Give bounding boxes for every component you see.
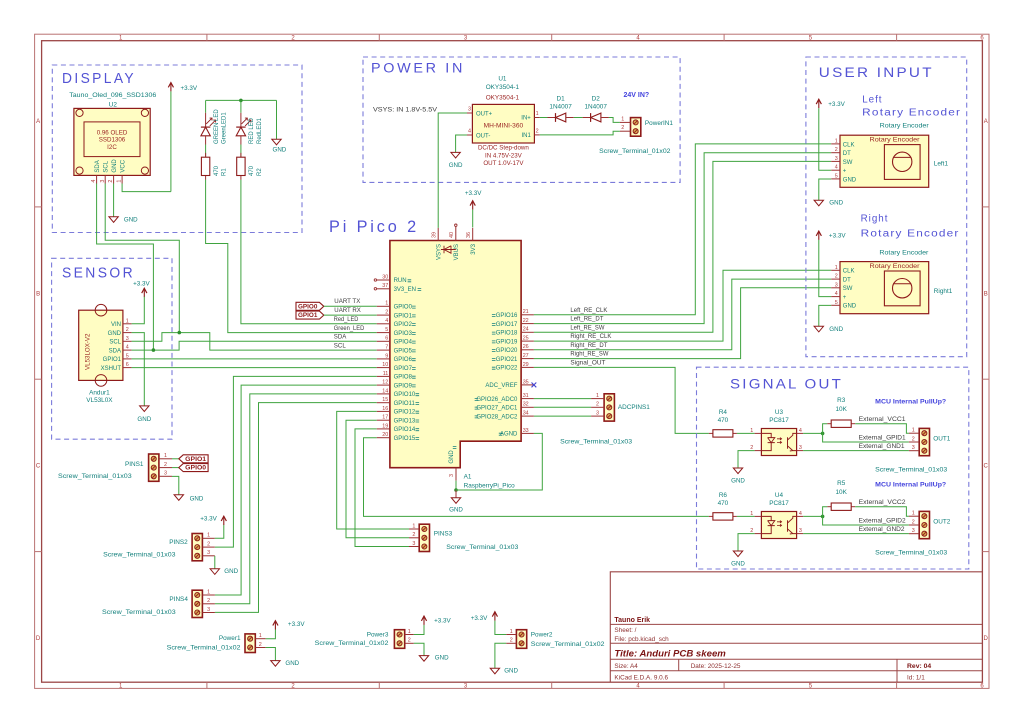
pin 4 SDA U2 xyxy=(96,175,98,183)
svg-text:SCL: SCL xyxy=(103,160,109,172)
svg-text:33: 33 xyxy=(523,428,529,434)
wire sensor GPIO1 to GPIO6 xyxy=(132,358,377,360)
wire to opto xyxy=(737,515,755,517)
ground left encoder xyxy=(814,200,823,206)
svg-text:Screw_Terminal_01x02: Screw_Terminal_01x02 xyxy=(315,640,389,647)
svg-text:GPIO9: GPIO9 xyxy=(394,383,413,389)
pin 6 GPIO4 xyxy=(377,340,390,342)
LED RedLED1 xyxy=(240,113,242,127)
svg-text:3: 3 xyxy=(412,541,415,547)
title block xyxy=(610,572,982,682)
svg-text:2: 2 xyxy=(835,274,838,280)
pin 2 GPIO1 xyxy=(377,314,390,316)
svg-text:34: 34 xyxy=(523,411,529,417)
svg-text:R1: R1 xyxy=(222,168,228,176)
svg-text:1: 1 xyxy=(408,629,411,635)
svg-text:File: pcb.kicad_sch: File: pcb.kicad_sch xyxy=(614,636,669,643)
wire GPIO11 to PINS4 xyxy=(215,403,377,613)
pin 3 SW xyxy=(831,287,840,289)
svg-text:3: 3 xyxy=(207,607,210,613)
pin 1 VCC U2 xyxy=(121,175,123,183)
svg-text:Right_RE_DT: Right_RE_DT xyxy=(570,343,607,349)
pin 10 GPIO7 xyxy=(377,367,390,369)
frame row ticks xyxy=(35,206,42,208)
wire XSHUT to GPIO7 xyxy=(132,367,377,369)
svg-text:Rotary Encoder: Rotary Encoder xyxy=(862,108,961,119)
svg-text:GPIO6: GPIO6 xyxy=(394,357,413,363)
svg-text:GPIO5: GPIO5 xyxy=(394,348,413,354)
wire GPIO13 to PINS3 xyxy=(346,420,409,538)
+3.3V power Power2 xyxy=(492,612,497,617)
wire PINS2 to +3.3V xyxy=(215,525,224,538)
wire External_GND xyxy=(803,450,909,452)
svg-text:+: + xyxy=(843,169,847,175)
wire Power2 +3.3V xyxy=(495,621,506,635)
svg-text:3V3: 3V3 xyxy=(471,243,477,254)
wire Power1 +3.3V xyxy=(266,630,276,639)
pin 1 GPIO0 xyxy=(377,305,390,307)
no-connect ADC_VREF xyxy=(532,383,537,388)
junction SDA xyxy=(152,348,156,352)
svg-text:MCU Internal PullUp?: MCU Internal PullUp? xyxy=(875,482,946,489)
svg-text:External_GPID1: External_GPID1 xyxy=(859,435,907,441)
svg-text:1: 1 xyxy=(412,523,415,529)
screw terminal PowerIN1 xyxy=(631,118,641,137)
svg-text:+3.3V: +3.3V xyxy=(200,516,217,523)
svg-text:PowerIN1: PowerIN1 xyxy=(645,120,674,127)
wire PINS1 gnd xyxy=(172,476,179,494)
svg-text:+3.3V: +3.3V xyxy=(434,617,451,624)
ground Power3 xyxy=(419,656,428,662)
svg-text:USER INPUT: USER INPUT xyxy=(819,65,934,80)
wire sensor GND xyxy=(132,333,145,406)
svg-text:IN+: IN+ xyxy=(521,116,531,122)
svg-text:+3.3V: +3.3V xyxy=(828,101,845,108)
pin 16 GPIO12 xyxy=(377,410,390,412)
svg-text:OUT1: OUT1 xyxy=(933,435,950,442)
svg-text:PC817: PC817 xyxy=(769,417,789,424)
svg-text:GND: GND xyxy=(137,416,151,423)
svg-text:10K: 10K xyxy=(836,489,848,496)
svg-text:3: 3 xyxy=(468,107,471,113)
svg-text:Right_RE_SW: Right_RE_SW xyxy=(570,352,608,358)
svg-text:1: 1 xyxy=(510,629,513,635)
svg-text:40: 40 xyxy=(449,232,455,238)
pin 1 VIN Andur1 xyxy=(123,323,132,325)
DISPLAY section box xyxy=(52,65,302,233)
svg-text:Tauno_Oled_096_SSD1306: Tauno_Oled_096_SSD1306 xyxy=(69,92,156,99)
svg-text:Screw_Terminal_01x02: Screw_Terminal_01x02 xyxy=(167,644,241,651)
svg-text:Power1: Power1 xyxy=(219,635,241,642)
svg-text:OUT-: OUT- xyxy=(476,133,490,139)
pin 5 GND xyxy=(831,178,840,180)
svg-text:U3: U3 xyxy=(775,409,784,416)
svg-text:Screw_Terminal_01x03: Screw_Terminal_01x03 xyxy=(102,609,176,616)
svg-text:GPIO1: GPIO1 xyxy=(103,357,122,363)
svg-text:Screw_Terminal_01x03: Screw_Terminal_01x03 xyxy=(446,544,519,551)
wire External_GND xyxy=(803,533,909,535)
svg-text:MH-MINI-360: MH-MINI-360 xyxy=(484,123,524,130)
svg-text:GPIO2: GPIO2 xyxy=(394,322,413,328)
svg-text:GPIO26_ADC0: GPIO26_ADC0 xyxy=(476,397,518,403)
wire GND pin xyxy=(113,184,115,217)
DC/DC converter U1 xyxy=(472,104,534,143)
svg-text:16: 16 xyxy=(382,406,388,412)
svg-text:27: 27 xyxy=(523,353,529,359)
svg-text:1: 1 xyxy=(912,428,915,434)
wire VSYS net xyxy=(438,113,467,228)
svg-text:Green_LED: Green_LED xyxy=(334,326,365,332)
svg-text:4: 4 xyxy=(126,345,129,351)
wire GPIO9 to PINS4 xyxy=(215,385,377,595)
pin 32 GPIO27_ADC1 xyxy=(521,406,534,408)
svg-text:GND: GND xyxy=(449,506,463,513)
svg-text:2: 2 xyxy=(108,180,114,183)
pin 39 VSYS xyxy=(437,228,439,241)
svg-text:+3.3V: +3.3V xyxy=(465,190,482,197)
+3.3V power left encoder xyxy=(816,99,821,104)
svg-text:1N4007: 1N4007 xyxy=(549,103,572,110)
junction pullup xyxy=(821,515,825,519)
frame column ticks xyxy=(206,34,208,41)
pin 3 SCL Andur1 xyxy=(123,340,132,342)
wire Left_RE_DT xyxy=(534,153,831,324)
svg-text:2: 2 xyxy=(596,402,599,408)
wire to LED gnd xyxy=(276,100,278,139)
pin 2 DT xyxy=(831,152,840,154)
resistor R3 10K xyxy=(827,423,831,425)
svg-text:Andur1: Andur1 xyxy=(89,390,110,397)
wire D1 to D2 xyxy=(574,117,583,119)
wire left encoder gnd xyxy=(819,179,831,200)
svg-text:GreenLED1: GreenLED1 xyxy=(222,112,228,144)
svg-text:1: 1 xyxy=(117,180,123,183)
ground pico xyxy=(451,498,460,504)
resistor R4 470 xyxy=(709,432,713,434)
wire red LED top xyxy=(240,100,242,112)
svg-text:D: D xyxy=(984,636,989,642)
svg-text:SDA: SDA xyxy=(109,348,121,354)
svg-text:0.96 OLED: 0.96 OLED xyxy=(97,130,128,137)
svg-text:PINS3: PINS3 xyxy=(434,530,453,537)
svg-text:7: 7 xyxy=(385,345,388,351)
svg-text:Pi Pico 2: Pi Pico 2 xyxy=(329,217,419,236)
svg-text:R4: R4 xyxy=(719,409,728,416)
svg-text:DT: DT xyxy=(843,151,851,157)
svg-text:PINS2: PINS2 xyxy=(169,539,188,546)
junction SCL xyxy=(178,331,182,335)
svg-text:Id: 1/1: Id: 1/1 xyxy=(907,674,925,681)
ground U3 xyxy=(733,468,742,474)
svg-text:1: 1 xyxy=(912,511,915,517)
pin 14 GPIO10 xyxy=(377,393,390,395)
svg-text:24: 24 xyxy=(523,327,529,333)
wire Power1 gnd xyxy=(266,648,276,661)
svg-text:22: 22 xyxy=(523,318,529,324)
svg-text:26: 26 xyxy=(523,344,529,350)
svg-text:R5: R5 xyxy=(837,480,846,487)
ground right encoder xyxy=(814,326,823,332)
rotary encoder Left1 xyxy=(840,135,929,187)
svg-text:RED LED: RED LED xyxy=(249,117,255,144)
svg-text:GPIO0: GPIO0 xyxy=(185,466,207,472)
svg-text:GPIO11: GPIO11 xyxy=(394,401,416,407)
svg-text:GND: GND xyxy=(504,668,518,675)
wire green LED top xyxy=(205,100,207,112)
svg-text:1: 1 xyxy=(596,393,599,399)
svg-text:Tauno Erik: Tauno Erik xyxy=(614,617,650,624)
svg-text:470: 470 xyxy=(249,165,255,176)
ground PINS2 xyxy=(210,569,219,575)
svg-text:ADC_VREF: ADC_VREF xyxy=(485,383,517,389)
svg-text:MCU Internal PullUp?: MCU Internal PullUp? xyxy=(875,399,946,406)
svg-text:VSYS: VSYS xyxy=(437,244,443,260)
wire Power2 gnd xyxy=(495,643,506,668)
wire VIN to +3.3V xyxy=(132,297,145,324)
svg-text:Screw_Terminal_01x02: Screw_Terminal_01x02 xyxy=(531,641,605,648)
svg-text:GND: GND xyxy=(124,217,138,224)
svg-text:GND: GND xyxy=(843,304,857,310)
svg-text:1: 1 xyxy=(164,453,167,459)
pin 35 ADC_VREF xyxy=(521,384,534,386)
svg-text:R2: R2 xyxy=(257,168,263,176)
wire IN1 to PowerIN1 xyxy=(540,131,620,135)
USER INPUT section box xyxy=(806,57,967,357)
pin 3 SW xyxy=(831,160,840,162)
pin 37 3V3_EN xyxy=(377,288,390,290)
svg-text:2: 2 xyxy=(412,532,415,538)
pin 1 CLK xyxy=(831,143,840,145)
wire display SDA xyxy=(97,184,154,351)
wire GND xyxy=(455,481,457,490)
pin 2 DT xyxy=(831,278,840,280)
svg-text:4: 4 xyxy=(835,291,838,297)
svg-text:1: 1 xyxy=(835,138,838,144)
wire opto gnd xyxy=(738,451,755,468)
wire GPIO10 to PINS4 xyxy=(215,394,377,604)
svg-text:Left: Left xyxy=(862,94,882,105)
wire 3V3 xyxy=(472,210,474,228)
svg-text:UART TX: UART TX xyxy=(334,299,360,305)
wire opto out xyxy=(803,515,823,517)
svg-text:RedLED1: RedLED1 xyxy=(257,117,263,144)
svg-text:GPIO3: GPIO3 xyxy=(394,331,413,337)
svg-text:Signal_OUT: Signal_OUT xyxy=(570,360,605,366)
svg-text:GPIO22: GPIO22 xyxy=(496,366,518,372)
svg-text:1: 1 xyxy=(207,589,210,595)
wire LED rail xyxy=(206,99,277,101)
svg-text:GPIO12: GPIO12 xyxy=(394,410,416,416)
svg-text:GND: GND xyxy=(273,146,287,153)
svg-text:1: 1 xyxy=(259,633,262,639)
svg-text:Right1: Right1 xyxy=(934,288,953,295)
svg-text:2: 2 xyxy=(408,638,411,644)
svg-text:+: + xyxy=(843,295,847,301)
svg-text:+3.3V: +3.3V xyxy=(471,615,488,622)
svg-text:PC817: PC817 xyxy=(769,500,789,507)
svg-text:XSHUT: XSHUT xyxy=(101,366,122,372)
svg-text:30: 30 xyxy=(382,274,388,280)
wire GPIO14 to PINS3 xyxy=(355,429,409,547)
svg-text:VL53L0X: VL53L0X xyxy=(86,397,113,404)
screw terminal OUT2 xyxy=(919,511,929,538)
pin 4 SDA Andur1 xyxy=(123,349,132,351)
svg-text:VBUS: VBUS xyxy=(454,244,460,260)
svg-text:GPIO0: GPIO0 xyxy=(394,305,413,311)
svg-text:470: 470 xyxy=(718,417,729,424)
svg-text:B: B xyxy=(36,291,40,297)
svg-text:Screw_Terminal_01x03: Screw_Terminal_01x03 xyxy=(875,467,948,474)
pin 27 GPIO21 xyxy=(521,358,534,360)
svg-text:GPIO18: GPIO18 xyxy=(496,331,518,337)
ground sensor xyxy=(140,406,149,412)
svg-text:GND: GND xyxy=(112,159,118,173)
svg-text:IN 4.75V-23V: IN 4.75V-23V xyxy=(485,152,523,159)
svg-text:GPIO21: GPIO21 xyxy=(496,357,518,363)
svg-text:GND: GND xyxy=(731,560,745,567)
svg-text:GND: GND xyxy=(829,326,843,333)
pin 40 VBUS xyxy=(455,226,457,240)
screw terminal Power2 xyxy=(516,630,526,649)
svg-text:10K: 10K xyxy=(836,406,848,413)
svg-text:470: 470 xyxy=(718,500,729,507)
ground Power2 xyxy=(490,668,499,674)
svg-text:4: 4 xyxy=(385,318,388,324)
pin 4 GPIO2 xyxy=(377,323,390,325)
svg-text:2: 2 xyxy=(207,541,210,547)
ground Power1 xyxy=(271,661,280,667)
svg-text:3: 3 xyxy=(100,180,106,183)
svg-text:OKY3504-1: OKY3504-1 xyxy=(486,84,520,91)
svg-text:5: 5 xyxy=(126,353,129,359)
diode D1 xyxy=(548,117,556,119)
svg-text:Screw_Terminal_01x03: Screw_Terminal_01x03 xyxy=(103,551,176,558)
wire SDA net xyxy=(132,341,377,350)
svg-text:Size: A4: Size: A4 xyxy=(614,663,638,670)
svg-text:39: 39 xyxy=(431,232,437,238)
diode D2 xyxy=(583,117,591,119)
svg-text:1: 1 xyxy=(750,511,753,517)
svg-text:U2: U2 xyxy=(109,102,118,109)
svg-text:4: 4 xyxy=(835,165,838,171)
wire External_VCC xyxy=(855,424,909,434)
wire Left_RE_CLK xyxy=(534,144,831,315)
Raspberry Pi Pico A1 xyxy=(390,241,521,468)
pin 2 IN1 xyxy=(534,134,539,136)
svg-text:R3: R3 xyxy=(837,397,846,404)
svg-text:3: 3 xyxy=(126,336,129,342)
svg-text:POWER IN: POWER IN xyxy=(371,61,465,76)
svg-text:VIN: VIN xyxy=(111,322,121,328)
svg-text:Power3: Power3 xyxy=(367,631,389,638)
pin 1 CLK xyxy=(831,269,840,271)
pin 29 GPIO22 xyxy=(521,366,534,368)
svg-text:3V3_EN: 3V3_EN xyxy=(394,287,416,293)
svg-text:SENSOR: SENSOR xyxy=(62,266,135,282)
svg-text:KiCad E.D.A. 9.0.6: KiCad E.D.A. 9.0.6 xyxy=(614,674,668,681)
svg-text:4: 4 xyxy=(468,129,471,135)
pin 30 RUN xyxy=(377,279,390,281)
wire Power3 gnd xyxy=(414,643,424,655)
+3.3V power PINS2 xyxy=(221,516,226,521)
+3.3V power xyxy=(470,201,475,206)
ground display xyxy=(109,217,118,223)
svg-text:External_VCC2: External_VCC2 xyxy=(859,500,907,506)
pin 3 GND bottom xyxy=(455,468,457,481)
svg-text:GPIO17: GPIO17 xyxy=(496,322,518,328)
svg-text:20: 20 xyxy=(382,432,388,438)
svg-text:GPIO13: GPIO13 xyxy=(394,418,416,424)
wire to opto xyxy=(737,432,755,434)
wire display SCL xyxy=(105,184,179,333)
svg-text:C: C xyxy=(36,464,41,470)
svg-text:Screw_Terminal_01x03: Screw_Terminal_01x03 xyxy=(560,438,633,445)
pin 4 OUT- xyxy=(467,134,472,136)
resistor R2 xyxy=(240,153,242,157)
junction GND xyxy=(454,488,458,492)
pin 2 GND U2 xyxy=(113,175,115,183)
svg-text:4: 4 xyxy=(799,428,802,434)
svg-text:GND: GND xyxy=(829,200,843,207)
svg-text:Left_RE_DT: Left_RE_DT xyxy=(570,317,603,323)
svg-text:3: 3 xyxy=(799,528,802,534)
svg-text:GPIO14: GPIO14 xyxy=(394,427,416,433)
svg-text:IN1: IN1 xyxy=(521,133,531,139)
svg-text:SCL: SCL xyxy=(109,340,121,346)
svg-text:Left_RE_SW: Left_RE_SW xyxy=(570,325,604,331)
svg-text:+3.3V: +3.3V xyxy=(133,280,150,287)
svg-text:Left1: Left1 xyxy=(934,161,949,168)
wire Left_RE_SW xyxy=(534,161,831,332)
svg-text:2: 2 xyxy=(126,327,129,333)
svg-text:2: 2 xyxy=(164,462,167,468)
svg-text:9: 9 xyxy=(385,353,388,359)
svg-text:15: 15 xyxy=(382,397,388,403)
pin 25 GPIO19 xyxy=(521,340,534,342)
screw terminal ADCPINS1 xyxy=(604,394,614,421)
svg-text:Red_LED: Red_LED xyxy=(334,317,359,323)
svg-text:D2: D2 xyxy=(592,96,601,103)
svg-text:SDA: SDA xyxy=(95,160,101,172)
wire opto out xyxy=(803,432,823,434)
LED GreenLED1 xyxy=(205,113,207,127)
svg-text:Screw_Terminal_01x03: Screw_Terminal_01x03 xyxy=(875,550,948,557)
svg-text:1: 1 xyxy=(621,116,624,122)
pin 4 + xyxy=(831,169,840,171)
svg-text:GPIO8: GPIO8 xyxy=(394,375,413,381)
wire External_GPID xyxy=(823,516,909,525)
wire to pullup xyxy=(823,424,828,434)
svg-text:DISPLAY: DISPLAY xyxy=(62,71,136,87)
svg-text:19: 19 xyxy=(382,423,388,429)
svg-text:PINS1: PINS1 xyxy=(125,461,144,468)
pin 33 AGND xyxy=(521,432,534,434)
svg-text:37: 37 xyxy=(382,283,388,289)
+3.3V power Power3 xyxy=(421,616,426,621)
pin 3 SCL U2 xyxy=(104,175,106,183)
svg-text:Screw_Terminal_01x02: Screw_Terminal_01x02 xyxy=(599,148,671,155)
resistor R5 10K xyxy=(827,506,831,508)
pin 6 XSHUT Andur1 xyxy=(123,367,132,369)
svg-text:PINS4: PINS4 xyxy=(169,596,188,603)
pin 5 GND xyxy=(831,304,840,306)
svg-text:I2C: I2C xyxy=(107,144,117,151)
pin 22 GPIO17 xyxy=(521,323,534,325)
wire to ground xyxy=(455,490,457,498)
pin 17 GPIO13 xyxy=(377,419,390,421)
wire Red_LED net xyxy=(241,180,377,324)
wire to GPIO0 label xyxy=(172,467,179,469)
